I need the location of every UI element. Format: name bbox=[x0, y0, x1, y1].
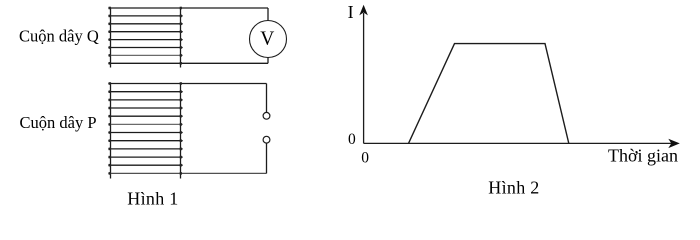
svg-text:Thời gian: Thời gian bbox=[608, 146, 678, 166]
coil P winding 2 bbox=[108, 91, 182, 93]
svg-text:Hình 2: Hình 2 bbox=[488, 178, 539, 198]
coil Q winding 8 / bottom wire to voltmeter bbox=[108, 62, 268, 64]
wire switch lower lead bbox=[266, 143, 268, 173]
coil P winding 5 bbox=[108, 115, 182, 117]
axis I (vertical) bbox=[359, 5, 368, 144]
coil Q winding 6 bbox=[108, 47, 182, 49]
switch terminal lower bbox=[263, 136, 270, 143]
coil P winding 7 bbox=[108, 132, 182, 134]
coil Q winding 7 bbox=[108, 54, 182, 56]
coil P winding 1 / top wire to switch bbox=[108, 83, 266, 85]
svg-text:I: I bbox=[348, 2, 354, 22]
axis Thời gian (horizontal) bbox=[364, 139, 680, 148]
coil Q right vertical bbox=[180, 8, 182, 68]
coil Q winding 1 / top wire to voltmeter bbox=[108, 7, 268, 9]
wire switch upper lead bbox=[266, 84, 268, 113]
coil P right vertical bbox=[180, 83, 182, 179]
coil P winding 10 bbox=[108, 156, 182, 158]
coil P winding 9 bbox=[108, 148, 182, 150]
svg-text:0: 0 bbox=[361, 149, 369, 166]
svg-text:0: 0 bbox=[348, 131, 356, 148]
svg-text:Hình 1: Hình 1 bbox=[127, 189, 178, 209]
wire voltmeter bottom lead bbox=[267, 58, 269, 64]
wire voltmeter top lead bbox=[267, 8, 269, 21]
coil Q winding 5 bbox=[108, 39, 182, 41]
coil P winding 4 bbox=[108, 107, 182, 109]
coil P winding 3 bbox=[108, 99, 182, 101]
coil P winding 6 bbox=[108, 123, 182, 125]
switch terminal upper bbox=[263, 112, 270, 119]
current curve (trapezoid) bbox=[409, 44, 569, 144]
coil Q winding 3 bbox=[108, 23, 182, 25]
coil Q winding 2 bbox=[108, 15, 182, 17]
svg-text:Cuộn dây Q: Cuộn dây Q bbox=[19, 27, 99, 46]
coil P winding 11 bbox=[108, 164, 182, 166]
coil P winding end ticks bbox=[109, 84, 182, 174]
coil P left vertical bbox=[110, 83, 112, 179]
voltmeter V bbox=[250, 21, 287, 58]
svg-text:V: V bbox=[260, 29, 274, 50]
coil Q left vertical bbox=[110, 8, 112, 68]
coil Q winding 4 bbox=[108, 31, 182, 33]
coil Q winding end ticks bbox=[109, 8, 182, 63]
coil P winding 12 / bottom wire to switch bbox=[108, 172, 266, 174]
coil P winding 8 bbox=[108, 140, 182, 142]
svg-text:Cuộn dây P: Cuộn dây P bbox=[20, 113, 97, 132]
